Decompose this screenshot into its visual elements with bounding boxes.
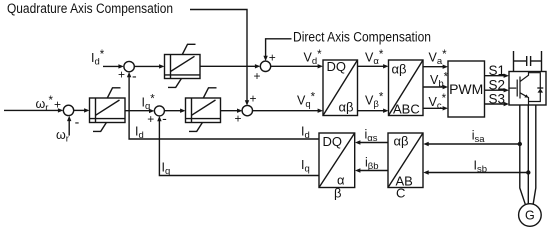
wire wr measured speed stub into S1: [67, 116, 71, 136]
node isa current tap label: [472, 129, 486, 146]
wire S4 to DQ block (Vq*): [252, 109, 323, 113]
node wr* speed reference label: [36, 95, 54, 113]
wire T1 to T2 (Valpha*): [358, 64, 389, 68]
svg-text:G: G: [525, 209, 535, 223]
wire PWM to inverter (S1): [485, 74, 510, 78]
transform block T4: abc to alpha-beta (feedback): [388, 133, 423, 201]
svg-text:DQ: DQ: [323, 134, 343, 149]
svg-text:-: -: [75, 114, 80, 130]
wire S2 to PI block B1: [134, 64, 164, 68]
svg-text:iβb: iβb: [365, 156, 379, 173]
inverter block with IGBT and freewheel diode: [509, 72, 546, 106]
PI current controller B1 (d-axis) with limiter: [165, 44, 201, 87]
svg-text:Vα*: Vα*: [365, 49, 384, 67]
svg-text:PWM: PWM: [449, 81, 483, 97]
node S3 gate signal label: [489, 91, 506, 106]
motor / generator G: [519, 204, 542, 227]
wire S5 to DQ block (Vd*): [271, 64, 323, 68]
wire direct compensation feed (elbow down to summing node S5): [263, 39, 291, 61]
wire phase c from inverter to motor: [533, 105, 536, 204]
node wr measured speed label: [56, 128, 69, 145]
svg-text:+: +: [249, 91, 256, 105]
svg-text:β: β: [334, 186, 341, 201]
svg-text:Iq: Iq: [162, 161, 171, 178]
DC link capacitor above inverter: [514, 51, 542, 72]
summing junction S3 (Iq loop): [147, 106, 167, 126]
node Va* label: [429, 49, 448, 67]
svg-text:Iq*: Iq*: [142, 94, 156, 112]
node Vd* label: [304, 49, 323, 67]
svg-text:Va*: Va*: [429, 49, 448, 67]
svg-text:Vβ*: Vβ*: [365, 92, 384, 110]
svg-text:Direct Axis Compensation: Direct Axis Compensation: [293, 30, 431, 45]
svg-text:Quadrature Axis Compensation: Quadrature Axis Compensation: [7, 1, 173, 16]
wire PWM to inverter (S3): [485, 102, 510, 106]
PWM modulator block: [448, 61, 485, 117]
summing junction S1 (speed loop): [63, 105, 79, 129]
svg-text:Iq: Iq: [301, 158, 310, 175]
svg-text:-: -: [162, 110, 167, 126]
node i-alpha-s label: [365, 128, 378, 145]
svg-text:ABC: ABC: [393, 102, 420, 117]
node S2 gate signal label: [489, 77, 506, 92]
wire T2 to PWM (Va*): [423, 65, 448, 69]
svg-text:+: +: [253, 69, 260, 83]
svg-text:αβ: αβ: [392, 62, 407, 77]
PI current controller B3 (q-axis) with limiter: [186, 88, 221, 132]
svg-text:DQ: DQ: [327, 59, 347, 74]
wire phase a from inverter to motor: [520, 105, 526, 204]
wire Isb measurement to T4 with tap junction: [423, 170, 530, 174]
node Iq feedback label (right): [301, 158, 310, 175]
wire T4 to T3 (i alpha s): [355, 140, 388, 144]
node Vc* label: [429, 93, 447, 111]
svg-text:ωr: ωr: [56, 128, 69, 145]
wire B3 output to summing node S4: [221, 109, 243, 113]
wire speed reference input into summing node S1: [4, 98, 63, 113]
summing junction S4 (Vq compensation): [234, 91, 256, 125]
transform block T1: DQ to alpha-beta: [323, 59, 358, 116]
node Iq* reference label: [142, 94, 156, 112]
svg-text:C: C: [396, 186, 405, 201]
svg-text:iαs: iαs: [365, 128, 378, 145]
svg-text:+: +: [54, 98, 61, 112]
transform block T2: alpha-beta to ABC: [389, 60, 424, 117]
svg-text:+: +: [269, 51, 276, 65]
svg-text:isa: isa: [472, 129, 486, 146]
wire B1 output to summing node S5 (crosses quadrature feed, no dot): [200, 64, 260, 68]
wire T1 to T2 (Vbeta*): [358, 109, 389, 113]
wire S3 to PI block B3: [164, 109, 185, 113]
wire S1 to PI block B2: [74, 108, 90, 112]
wire T4 to T3 (i beta b): [355, 168, 388, 172]
wire quadrature compensation feed (top elbow down to summing node S4): [190, 10, 249, 106]
transform block T3: alpha-beta to DQ (feedback): [319, 133, 355, 201]
svg-text:Vq*: Vq*: [297, 92, 316, 110]
node: Quadrature Axis Compensation label: [7, 1, 173, 16]
svg-text:+: +: [147, 112, 154, 126]
node i-beta-b label: [365, 156, 379, 173]
svg-text:Vd*: Vd*: [304, 49, 323, 67]
PI speed controller B2 with limiter: [90, 88, 126, 132]
node Vbeta* label: [365, 92, 384, 110]
node S1 gate signal label: [489, 63, 506, 78]
node Vb* label: [430, 71, 449, 89]
svg-text:αβ: αβ: [394, 134, 409, 149]
svg-text:Id*: Id*: [91, 49, 105, 67]
wire Id feedback from T3 to summing node S2: [127, 72, 319, 139]
wire phase b from inverter to motor: [527, 105, 529, 204]
summing junction S2 (Id loop): [118, 61, 137, 83]
svg-text:+: +: [234, 112, 241, 126]
svg-text:αβ: αβ: [339, 100, 354, 115]
summing junction S5 (Vd compensation): [253, 51, 275, 84]
node Id feedback label (right): [301, 125, 310, 142]
node Vq* label: [297, 92, 316, 110]
wire B2 output to summing node S3: [125, 109, 154, 113]
node Iq feedback label (left): [162, 161, 171, 178]
wire T2 to PWM (Vc*): [423, 106, 448, 110]
node Isb current tap label: [474, 159, 488, 176]
wire Id* input into summing node S2: [103, 64, 124, 68]
wire PWM to inverter (S2): [485, 88, 510, 92]
node: Direct Axis Compensation label: [293, 30, 431, 45]
node Id* reference input label: [91, 49, 105, 67]
wire isa measurement to T4 with tap junction: [423, 142, 522, 146]
svg-text:-: -: [132, 67, 137, 83]
wire T2 to PWM (Vb*): [423, 85, 448, 89]
node Id feedback label (left): [135, 125, 144, 142]
wire Iq feedback from T3 to summing node S3: [157, 116, 319, 176]
svg-text:+: +: [118, 68, 125, 82]
node Valpha* label: [365, 49, 384, 67]
